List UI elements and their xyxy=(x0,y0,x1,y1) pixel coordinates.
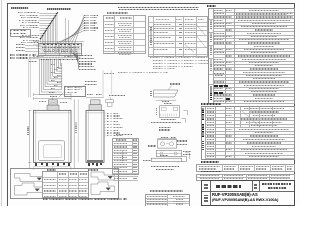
front overall dim line xyxy=(34,94,72,96)
front panel recess xyxy=(39,141,65,161)
caption under box xyxy=(43,198,128,199)
rotated dim right xyxy=(75,122,77,133)
options table xyxy=(42,171,89,198)
remarks block under table B xyxy=(150,57,208,58)
vent side label R xyxy=(60,102,67,103)
lower right label stack xyxy=(79,55,92,56)
bracket profile 2 xyxy=(15,183,44,195)
wall bracket top view xyxy=(170,83,180,84)
connection table caption xyxy=(116,134,132,135)
exhaust-top label right xyxy=(85,81,97,82)
staircase dimension chain xyxy=(42,59,44,90)
boxed note label left xyxy=(10,29,31,37)
bold labels left of staircase xyxy=(10,54,36,55)
band inner text row xyxy=(42,47,79,48)
long note line 2 xyxy=(119,9,198,11)
side flange detail xyxy=(106,100,114,103)
front bottom dim xyxy=(34,167,72,169)
long note line 1 xyxy=(118,7,199,9)
band inner text row 2 xyxy=(44,51,77,52)
units label (tanni mm) xyxy=(11,7,28,9)
left extension lines xyxy=(25,44,40,46)
long extension lines above side view xyxy=(102,70,104,98)
section label gas connection xyxy=(201,171,221,173)
flange label xyxy=(109,95,125,96)
band internal verticals xyxy=(40,45,42,54)
clearance table A xyxy=(103,15,146,54)
side bottom connection fittings xyxy=(88,163,91,166)
piping position table B xyxy=(148,16,207,57)
vent side label L xyxy=(39,101,46,102)
caption under exhaust drawings xyxy=(151,166,179,167)
side view body xyxy=(86,110,104,162)
tiny dimension numbers row xyxy=(41,59,79,60)
paper edge artifact xyxy=(0,0,3,206)
small label xyxy=(104,73,114,74)
side bottom dark band xyxy=(87,160,103,162)
leaders to lower-right labels xyxy=(71,53,79,57)
bracket profile 4 xyxy=(91,182,115,195)
side flue xyxy=(91,100,101,105)
bracket profile 3 xyxy=(91,172,115,180)
front bottom connection fittings xyxy=(35,163,37,166)
exhaust adapter top view xyxy=(161,137,168,138)
pointer mark 2 xyxy=(185,153,189,159)
side top dims xyxy=(87,94,93,95)
anchor hole labels xyxy=(151,122,181,123)
band bottom ticks xyxy=(40,53,42,56)
front vent dim line xyxy=(34,98,72,100)
bracket profile 1 xyxy=(15,174,44,182)
sub-column dividers (upper rows of lower table) xyxy=(201,106,296,160)
band extra detail lines xyxy=(40,48,82,50)
section label installation height xyxy=(201,161,219,163)
gas consumption table xyxy=(145,194,191,206)
left dim line xyxy=(29,110,31,168)
ladder leaders from left labels xyxy=(39,12,57,14)
heater bottom-view band xyxy=(39,43,82,55)
spec heading xyxy=(207,5,217,7)
pointer mark xyxy=(184,111,188,116)
exhaust top side view xyxy=(143,160,151,161)
gas connection rows xyxy=(196,174,295,181)
dim line under band xyxy=(30,56,80,58)
bracket mark xyxy=(182,119,186,123)
gas table caption xyxy=(150,190,183,191)
staircase numbers xyxy=(51,88,55,89)
vertical label pipe cover xyxy=(122,151,124,163)
main specification table (upper) xyxy=(208,8,296,104)
side bottom dim xyxy=(86,167,104,169)
wall bracket front view xyxy=(164,103,172,104)
title block xyxy=(201,180,296,206)
exhaust note box xyxy=(64,86,87,97)
leaders from bold labels xyxy=(36,55,43,57)
remark last line xyxy=(118,72,168,73)
front view body xyxy=(34,110,72,162)
right connection label stack xyxy=(84,15,98,16)
exhaust adapter mid view xyxy=(183,151,191,152)
sub-section header (bath spec) xyxy=(201,103,221,105)
title (LP gas spec figure) xyxy=(47,8,71,10)
installation height row xyxy=(196,164,295,171)
rotated dim 750 xyxy=(27,126,29,135)
right dim line xyxy=(73,99,75,168)
table A caption xyxy=(107,12,128,13)
diagonal fan leaders xyxy=(75,15,85,44)
front flue stack xyxy=(49,100,58,105)
vertical drop lines right of ladder xyxy=(65,18,67,43)
front top dim labels xyxy=(49,92,55,93)
side right label stack xyxy=(107,113,118,114)
diagonal chain of arrow marks xyxy=(56,12,58,14)
connection circles xyxy=(43,50,45,52)
band internal fitting blobs xyxy=(43,44,45,46)
bottom-left options box xyxy=(10,168,119,199)
connection size table xyxy=(112,138,139,175)
left connection label stack xyxy=(18,12,39,13)
dim extension verticals xyxy=(28,59,30,97)
outer drawing frame xyxy=(7,3,295,215)
